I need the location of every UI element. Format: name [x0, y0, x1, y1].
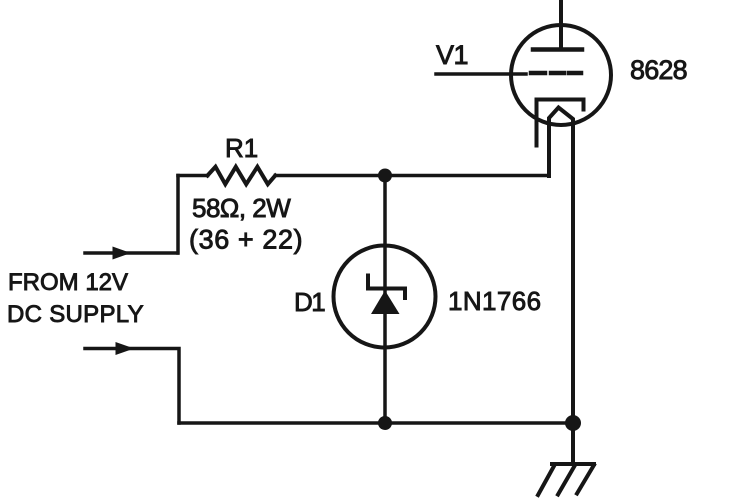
- svg-text:FROM 12V: FROM 12V: [8, 269, 128, 296]
- svg-text:V1: V1: [436, 40, 468, 70]
- svg-text:8628: 8628: [630, 55, 687, 85]
- svg-text:1N1766: 1N1766: [448, 286, 541, 316]
- svg-text:(36 + 22): (36 + 22): [189, 225, 303, 255]
- svg-text:D1: D1: [294, 287, 325, 317]
- svg-text:DC SUPPLY: DC SUPPLY: [7, 301, 144, 328]
- svg-text:58Ω, 2W: 58Ω, 2W: [192, 193, 291, 223]
- svg-text:R1: R1: [225, 133, 258, 163]
